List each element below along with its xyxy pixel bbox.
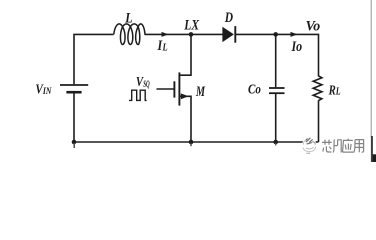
svg-text:Io: Io — [291, 38, 303, 55]
wire: diode cathode to Vo corner, down to RL — [235, 34, 318, 76]
char 用 — [354, 140, 364, 153]
wire: Vo node down to Co — [275, 34, 277, 87]
svg-text:Vo: Vo — [306, 18, 321, 35]
mosfet source arrow — [181, 93, 189, 99]
stub below mosfet bottom junction — [190, 143, 192, 146]
current arrow IL — [162, 32, 169, 37]
diode D cathode bar — [234, 26, 236, 43]
svg-text:RL: RL — [328, 82, 341, 97]
stub below bottom-left junction — [73, 143, 75, 148]
capacitor Co bottom plate — [269, 92, 285, 94]
battery V_IN short plate — [66, 91, 81, 94]
char 应 — [343, 139, 354, 153]
svg-text:VIN: VIN — [35, 82, 52, 97]
char 芯 — [322, 140, 332, 152]
wire: bottom rail — [74, 141, 319, 143]
wire: mosfet source to bottom rail — [179, 96, 191, 142]
Vsq square-wave glyph — [129, 90, 147, 100]
bottom Co junction dot — [273, 140, 278, 145]
page edge line right — [370, 0, 372, 137]
battery V_IN long plate — [60, 84, 88, 86]
wire: LX down to mosfet drain — [179, 34, 191, 75]
svg-text:LX: LX — [183, 16, 199, 33]
wire: battery minus down — [73, 93, 75, 142]
wire: gate lead — [157, 88, 175, 90]
bottom mosfet junction dot — [189, 140, 194, 145]
svg-text:V: V — [136, 74, 144, 89]
watermark logo icon — [303, 138, 316, 154]
char 片 — [333, 139, 341, 152]
inductor L — [114, 24, 145, 45]
watermark text 芯片应用 — [322, 139, 364, 153]
svg-text:M: M — [195, 83, 206, 99]
current arrow IO — [291, 32, 298, 37]
watermark halo (white glow over wire) — [302, 137, 316, 154]
stub below Co bottom junction — [275, 143, 277, 146]
node LX junction dot — [189, 32, 194, 37]
svg-text:L: L — [124, 9, 132, 26]
svg-text:Co: Co — [248, 81, 261, 96]
mosfet gate bar — [173, 81, 175, 97]
capacitor Co top plate — [269, 87, 285, 89]
bottom-left junction dot — [72, 140, 77, 145]
wire: Vin top to inductor — [73, 34, 113, 84]
wire: RL bottom to rail — [318, 100, 320, 142]
svg-text:IL: IL — [157, 37, 168, 54]
resistor RL zigzag — [313, 76, 322, 101]
wire: inductor to diode anode — [145, 33, 223, 35]
mosfet channel bar — [178, 72, 180, 105]
wire: Co to bottom rail — [275, 94, 277, 142]
page edge dark corner — [373, 154, 376, 162]
svg-text:SQ: SQ — [143, 78, 150, 89]
node Vo/Co junction dot — [273, 32, 278, 37]
diode D triangle — [222, 27, 234, 42]
svg-text:D: D — [224, 9, 234, 26]
